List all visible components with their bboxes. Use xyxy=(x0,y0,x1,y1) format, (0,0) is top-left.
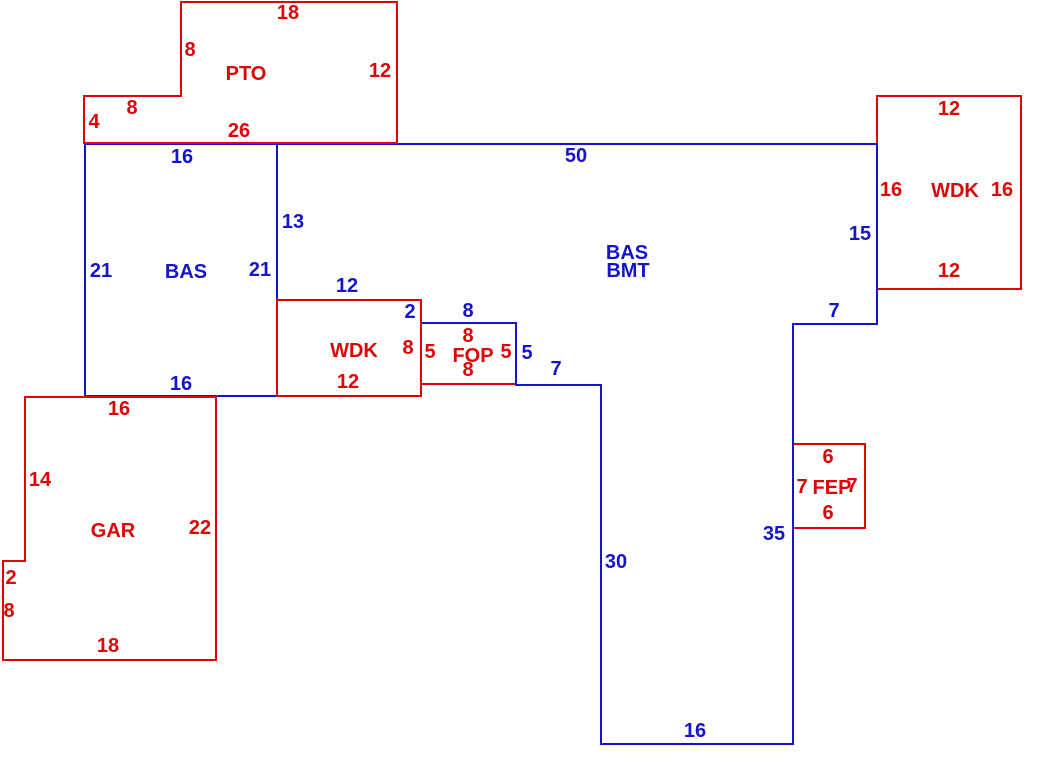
svg-text:6: 6 xyxy=(822,502,833,524)
svg-text:18: 18 xyxy=(277,2,299,24)
svg-text:7: 7 xyxy=(846,475,857,497)
svg-text:2: 2 xyxy=(5,567,16,589)
svg-text:2: 2 xyxy=(404,301,415,323)
svg-text:35: 35 xyxy=(763,523,785,545)
room BAS BMT outline xyxy=(277,144,877,744)
svg-text:22: 22 xyxy=(189,517,211,539)
svg-text:7: 7 xyxy=(796,476,807,498)
svg-text:15: 15 xyxy=(849,223,871,245)
room FEP outline xyxy=(793,444,865,528)
room WDK (upper right) outline xyxy=(877,96,1021,289)
room WDK (middle) outline xyxy=(277,300,421,396)
svg-text:12: 12 xyxy=(337,371,359,393)
svg-text:8: 8 xyxy=(3,600,14,622)
svg-text:8: 8 xyxy=(184,39,195,61)
svg-text:5: 5 xyxy=(500,341,511,363)
svg-text:12: 12 xyxy=(938,260,960,282)
svg-text:16: 16 xyxy=(991,179,1013,201)
svg-text:21: 21 xyxy=(249,259,271,281)
svg-text:14: 14 xyxy=(29,469,52,491)
svg-text:8: 8 xyxy=(462,325,473,347)
svg-text:16: 16 xyxy=(108,398,130,420)
room FOP outline xyxy=(421,323,516,384)
svg-text:16: 16 xyxy=(170,373,192,395)
svg-text:8: 8 xyxy=(462,300,473,322)
svg-text:50: 50 xyxy=(565,145,587,167)
svg-text:26: 26 xyxy=(228,120,250,142)
svg-text:5: 5 xyxy=(521,342,532,364)
svg-text:8: 8 xyxy=(402,337,413,359)
svg-text:16: 16 xyxy=(171,146,193,168)
svg-text:8: 8 xyxy=(462,359,473,381)
svg-text:16: 16 xyxy=(684,720,706,742)
svg-text:12: 12 xyxy=(369,60,391,82)
svg-text:12: 12 xyxy=(336,275,358,297)
svg-text:7: 7 xyxy=(828,300,839,322)
svg-text:18: 18 xyxy=(97,635,119,657)
svg-text:WDK: WDK xyxy=(330,340,378,362)
svg-text:21: 21 xyxy=(90,260,112,282)
room PTO outline xyxy=(84,2,397,143)
svg-text:WDK: WDK xyxy=(931,180,979,202)
room GAR outline xyxy=(3,397,216,660)
room BAS outline xyxy=(85,144,277,396)
svg-text:13: 13 xyxy=(282,211,304,233)
svg-text:BMT: BMT xyxy=(606,260,649,282)
svg-text:12: 12 xyxy=(938,98,960,120)
svg-text:4: 4 xyxy=(88,111,100,133)
svg-text:8: 8 xyxy=(126,97,137,119)
svg-text:6: 6 xyxy=(822,446,833,468)
svg-text:30: 30 xyxy=(605,551,627,573)
svg-text:BAS: BAS xyxy=(165,261,207,283)
svg-text:PTO: PTO xyxy=(226,63,267,85)
svg-text:5: 5 xyxy=(424,341,435,363)
svg-text:16: 16 xyxy=(880,179,902,201)
svg-text:7: 7 xyxy=(550,358,561,380)
svg-text:GAR: GAR xyxy=(91,520,136,542)
